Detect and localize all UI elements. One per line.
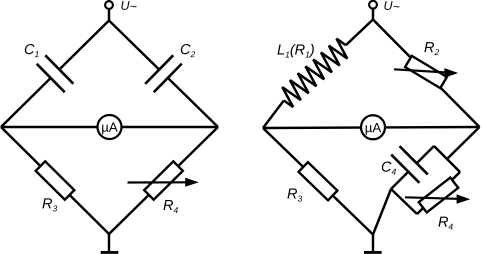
ground (right bridge) — [372, 235, 374, 253]
wire block top side stub — [434, 146, 460, 172]
wire zigzag to left vertex (right) — [263, 101, 284, 129]
svg-text:µA: µA — [365, 120, 382, 135]
wire apex to right vertex (right top-right arm) — [373, 20, 480, 128]
wire C2 to right vertex — [168, 78, 218, 127]
wire bridge diagonal (left bridge horizontal) — [1, 126, 218, 128]
wire lower branch (R4 branch) — [417, 172, 460, 214]
svg-text:U~: U~ — [384, 0, 400, 14]
wire left vertex to bottom (right bottom-left arm) — [263, 128, 373, 235]
wire apex to inductor (right top-left arm) — [346, 20, 373, 46]
svg-text:L1(R1): L1(R1) — [277, 43, 315, 60]
svg-text:C2: C2 — [180, 42, 195, 59]
node U~ terminal (left bridge) — [105, 1, 113, 9]
svg-text:R4: R4 — [163, 198, 178, 215]
arrow through R2 — [394, 69, 445, 72]
svg-text:R3: R3 — [287, 187, 302, 204]
resistor R2 (variable) — [405, 56, 447, 88]
svg-text:C1: C1 — [24, 42, 39, 59]
svg-text:µA: µA — [101, 120, 118, 135]
capacitor C2 — [145, 55, 182, 92]
svg-text:R3: R3 — [42, 196, 57, 213]
ground (left bridge) — [108, 234, 110, 252]
svg-text:R4: R4 — [438, 215, 453, 232]
wire bottom vertex to parallel block — [373, 189, 391, 235]
wire C4 to block top corner — [417, 146, 434, 163]
svg-text:U~: U~ — [121, 0, 137, 14]
wire bottom to right vertex (left bottom-right arm) — [109, 127, 218, 234]
node U~ terminal (right bridge) — [369, 1, 377, 9]
capacitor C4 — [391, 146, 428, 183]
resistor R3 (left bridge) — [36, 161, 75, 199]
inductor L1(R1) zigzag — [282, 39, 347, 107]
wire terminal to apex (left) — [108, 9, 110, 21]
meter uA (right bridge) — [361, 115, 385, 139]
wire block left corner to C4 — [391, 172, 408, 189]
wire apex to C1 (left top-left arm) — [59, 21, 109, 70]
wire terminal to apex (right) — [372, 9, 374, 21]
svg-text:R2: R2 — [424, 40, 439, 57]
wire apex to C2 (left top-right arm) — [109, 21, 159, 70]
resistor R3 (right bridge) — [299, 162, 338, 200]
resistor R4 (left bridge, variable) — [144, 161, 183, 199]
capacitor C1 — [37, 55, 74, 92]
svg-text:C4: C4 — [381, 160, 396, 177]
meter uA (left bridge) — [98, 115, 122, 139]
wire C1 to left vertex — [1, 78, 51, 127]
wire block to right vertex — [447, 127, 480, 159]
arrow through R4 (right) — [405, 197, 457, 199]
wire bridge diagonal (right bridge horizontal) — [263, 127, 480, 128]
wire block left side stub — [391, 189, 417, 214]
resistor R4 (right bridge, variable) — [419, 178, 459, 213]
wire left vertex to bottom (left bottom-left arm) — [1, 127, 109, 234]
arrow through R4 (left) — [128, 181, 188, 183]
